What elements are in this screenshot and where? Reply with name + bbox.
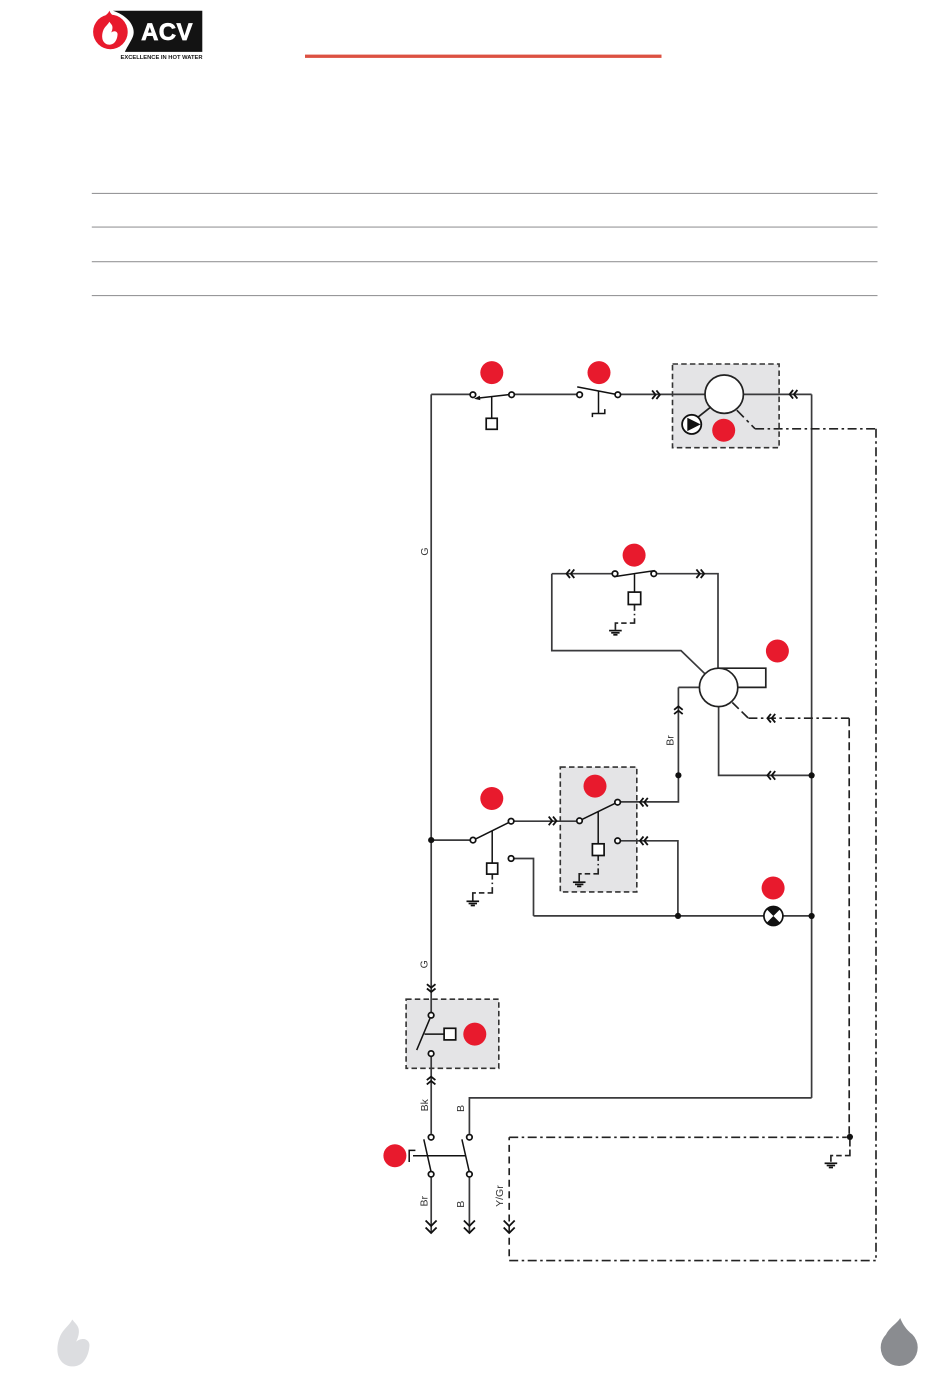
contact: safety thermostat right xyxy=(615,392,621,398)
thermostat TH1 blade arrowhead xyxy=(474,396,480,401)
middle switch blade xyxy=(614,571,655,593)
callout dot: valve motor xyxy=(766,640,789,663)
valve motor body rect xyxy=(719,668,766,687)
node: earth junction xyxy=(847,1134,853,1140)
wire right main vertical xyxy=(811,394,813,1098)
thermostat TH1 bulb square xyxy=(486,418,497,429)
ground below outer switch xyxy=(467,901,480,905)
svg-text:Br: Br xyxy=(665,735,677,746)
dash-dot earth stub relay box switch xyxy=(579,855,598,881)
contact: safety thermostat left xyxy=(577,392,583,398)
svg-text:G: G xyxy=(419,548,431,556)
contact: mains switch N bottom xyxy=(467,1171,473,1177)
pump actuator diagonal dash xyxy=(737,410,755,429)
connector chevron: changeover to relay xyxy=(549,817,557,826)
connector chevron: Br wire up xyxy=(674,706,683,714)
wire B output xyxy=(468,1178,470,1234)
svg-text:B: B xyxy=(455,1105,467,1112)
bottom box bulb square xyxy=(444,1028,456,1040)
svg-text:ACV: ACV xyxy=(141,19,193,46)
wire upper branch to relay box xyxy=(515,820,577,822)
node: lamp rail / relay NC xyxy=(675,913,681,919)
svg-text:B: B xyxy=(455,1201,467,1208)
table line 1 xyxy=(92,192,878,194)
callout dot: lamp xyxy=(762,877,785,900)
pump symbol triangle xyxy=(687,418,700,431)
outer changeover bulb square xyxy=(487,863,498,874)
svg-text:Y/Gr: Y/Gr xyxy=(494,1185,506,1207)
svg-text:EXCELLENCE IN HOT WATER: EXCELLENCE IN HOT WATER xyxy=(121,55,204,61)
middle switch bulb square xyxy=(628,592,640,604)
wire relay lower contact to bottom node xyxy=(621,841,678,916)
connector chevron: pump feed in xyxy=(652,390,660,399)
wire valve bottom to right bus xyxy=(719,687,812,775)
callout dot: safety thermostat xyxy=(588,361,611,384)
wire switch2 to pump box through circle xyxy=(621,393,812,395)
contact: changeover NC xyxy=(508,856,513,862)
dashed actuator vertical xyxy=(848,718,850,1134)
connector chevron: valve actuator xyxy=(767,714,775,723)
wire Br output xyxy=(430,1178,432,1234)
thermostat TH1 blade xyxy=(477,395,509,419)
node: Br wire junction xyxy=(675,772,681,778)
bottom left flame watermark xyxy=(57,1320,89,1367)
connector chevron: relay NC wire xyxy=(640,837,648,846)
callout dot: changeover switch xyxy=(480,787,503,810)
callout dot: pump xyxy=(712,419,735,442)
contact: mains switch L bottom xyxy=(428,1171,434,1177)
connector chevron: Bk wire up xyxy=(427,1077,436,1085)
connector chevron: relay NO wire xyxy=(640,798,648,807)
pump assembly circle xyxy=(705,375,743,413)
callout dot: middle switch xyxy=(623,544,646,567)
bottom switch dashed grey box xyxy=(406,999,499,1068)
callout dot: flow switch xyxy=(463,1023,486,1046)
contact: changeover common xyxy=(470,837,476,843)
dash-dot Y/Gr horizontal xyxy=(509,1136,847,1138)
connector chevron: pump feed out xyxy=(790,390,798,399)
connector chevron: middle loop left xyxy=(567,569,575,578)
dash-dot earth drop right xyxy=(831,1137,850,1162)
ground below middle switch xyxy=(609,631,622,635)
relay box blade xyxy=(582,803,615,843)
wire lower branch xyxy=(515,859,534,916)
callout dot: relay xyxy=(584,775,607,798)
safety thermostat blade xyxy=(577,387,615,417)
contact: flow switch top xyxy=(428,1013,434,1019)
ground bottom right xyxy=(825,1163,838,1167)
bottom box switch blade xyxy=(417,1019,444,1051)
table line 4 xyxy=(92,295,878,297)
pump symbol circle xyxy=(682,415,701,434)
contact: thermostat left xyxy=(470,392,476,398)
wire bottom corner to B pole xyxy=(469,1098,811,1134)
table line 2 xyxy=(92,226,878,228)
arrow: Y/Gr lead end xyxy=(504,1221,515,1234)
double pole switch blades xyxy=(409,1139,469,1171)
dash-dot right outer vertical xyxy=(875,429,877,1261)
wire bottom lamp rail xyxy=(534,915,812,917)
contact: relay NC xyxy=(615,838,621,844)
contact: relay common xyxy=(577,818,583,824)
svg-text:Bk: Bk xyxy=(419,1098,431,1111)
wire between switch 1 and 2 xyxy=(515,393,577,395)
contact: changeover NO xyxy=(508,818,513,824)
arrow: B lead end xyxy=(464,1221,475,1234)
ACV logo white flame xyxy=(102,22,117,45)
svg-text:Br: Br xyxy=(419,1195,431,1206)
contact: mains switch L top xyxy=(428,1134,434,1140)
connector chevron: valve return xyxy=(767,771,775,780)
contact: mains switch N top xyxy=(467,1134,473,1140)
contact: middle switch left xyxy=(612,571,618,577)
contact: middle switch right xyxy=(651,571,657,577)
valve motor circle xyxy=(699,668,737,706)
callout dot: thermostat xyxy=(480,361,503,384)
svg-text:G: G xyxy=(418,960,430,968)
wire Br vertical xyxy=(621,687,678,802)
contact: relay NO xyxy=(615,799,621,805)
relay box bulb square xyxy=(592,844,604,856)
wire middle right to valve xyxy=(657,574,718,669)
node: right bus / lamp rail xyxy=(809,913,815,919)
wire bottom box to switch xyxy=(430,1057,432,1134)
ACV logo black box xyxy=(113,11,202,52)
dash-dot pump to right xyxy=(755,428,876,430)
outer changeover blade xyxy=(476,823,509,864)
connector chevron: middle loop right xyxy=(696,569,704,578)
connector chevron: G wire down xyxy=(427,984,436,992)
ACV logo red droplet xyxy=(93,11,128,50)
bottom right droplet xyxy=(881,1318,918,1366)
dash-dot earth stub middle switch xyxy=(615,605,634,630)
wire valve left stub xyxy=(678,686,706,688)
table line 3 xyxy=(92,261,878,263)
valve actuator diagonal dash xyxy=(732,703,748,719)
dashed Y/Gr vertical xyxy=(508,1137,510,1260)
contact: flow switch bottom xyxy=(428,1051,434,1057)
wire third section horizontal xyxy=(431,839,469,841)
dash-dot earth stub outer switch xyxy=(473,874,493,901)
dash-dot valve actuator horizontal xyxy=(748,717,849,719)
relay dashed grey box (middle) xyxy=(560,767,637,892)
dash-dot bottom loop xyxy=(509,1260,876,1262)
orange title rule xyxy=(305,55,662,58)
wire left main vertical xyxy=(430,394,432,1012)
wire middle left loop to valve xyxy=(552,574,706,675)
ground inside relay box xyxy=(573,882,586,886)
arrow: Br lead end xyxy=(426,1221,437,1234)
node: G bus / changeover branch xyxy=(428,837,434,843)
pump unit dashed grey box xyxy=(673,364,780,448)
node: right bus / valve return xyxy=(809,772,815,778)
wire top horizontal left xyxy=(431,393,469,395)
wire middle horizontal xyxy=(552,573,612,575)
indicator lamp xyxy=(764,907,783,926)
callout dot: mains switch xyxy=(383,1144,406,1167)
pump link line xyxy=(698,407,711,418)
contact: thermostat right xyxy=(509,392,514,398)
